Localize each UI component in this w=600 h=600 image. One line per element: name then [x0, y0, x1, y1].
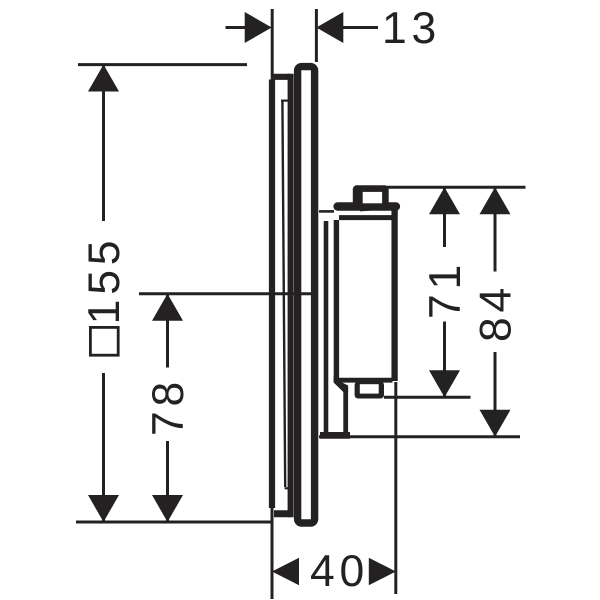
- svg-text:13: 13: [382, 4, 441, 53]
- svg-text:78: 78: [144, 377, 193, 436]
- svg-text:40: 40: [310, 547, 369, 596]
- svg-text:84: 84: [471, 283, 520, 342]
- svg-text:71: 71: [421, 260, 470, 319]
- svg-text:155: 155: [80, 236, 129, 325]
